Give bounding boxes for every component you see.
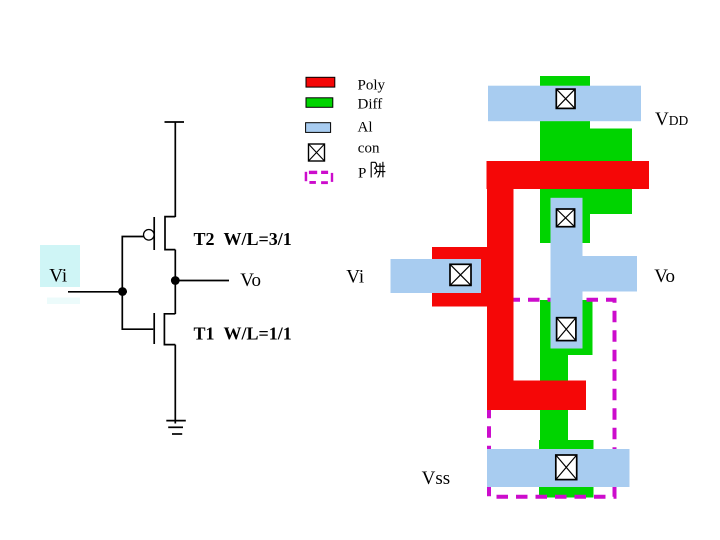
diff lower region narrow strip (540, 355, 568, 449)
contact drain T2 (557, 209, 575, 227)
contact Vss (556, 455, 577, 480)
wire Vo output lead (175, 280, 229, 282)
wire VDD rail vertical (drain of T2) (174, 122, 176, 217)
svg-text:con: con (358, 141, 380, 157)
diff upper region main slab (540, 96, 590, 243)
node Vi input highlight box (40, 245, 80, 287)
svg-text:Vi: Vi (346, 267, 364, 288)
transistor Q T2 PMOS channel (165, 217, 175, 250)
svg-text:T1 W/L=1/1: T1 W/L=1/1 (194, 324, 292, 344)
svg-text:Vi: Vi (49, 266, 67, 287)
wire output node to T1 drain (174, 281, 176, 315)
legend P-well swatch (305, 171, 333, 184)
poly bottom horizontal bar (487, 381, 586, 411)
wire T2 source to output node (174, 250, 176, 281)
diff lower region bottom block (539, 440, 594, 498)
Al Vi input bar (391, 259, 482, 293)
wire T2 gate lead (122, 237, 143, 292)
node Vi junction dot (118, 287, 127, 296)
Al Vss rail bar (487, 449, 630, 487)
transistor T2 bubble (144, 230, 155, 241)
svg-text:Al: Al (358, 119, 373, 135)
svg-text:VDD: VDD (655, 109, 688, 130)
diff upper region stub above VDD rail (540, 76, 590, 96)
diff lower region upper block (540, 300, 593, 355)
transistor T2 gate bar (153, 217, 155, 250)
contact drain T1 (557, 318, 576, 341)
svg-text:P: P (358, 166, 366, 182)
contact VDD (556, 89, 575, 108)
wire VDD rail top bar (165, 121, 185, 123)
diff upper region right extension (590, 129, 632, 215)
contact Vi (450, 264, 471, 285)
Al VDD rail bar (488, 86, 641, 122)
svg-text:Vo: Vo (240, 270, 261, 291)
svg-text:Poly: Poly (358, 78, 386, 94)
legend Poly swatch (306, 77, 335, 87)
Al center vertical strip (551, 198, 583, 349)
svg-text:T2 W/L=3/1: T2 W/L=3/1 (194, 229, 292, 249)
wire Vi input lead (68, 291, 127, 293)
poly gate top horizontal bar (487, 161, 650, 189)
poly vertical strip (487, 161, 514, 410)
poly Vi input stub (432, 247, 490, 307)
transistor T1 gate bar (153, 313, 155, 344)
legend P-well Chinese character jing (371, 162, 385, 178)
legend Al swatch (306, 123, 331, 133)
wire T1 source to ground (174, 345, 176, 424)
ground (166, 421, 186, 434)
svg-text:Diff: Diff (358, 97, 383, 113)
legend Diff swatch (306, 98, 333, 108)
transistor Q T1 NMOS channel (164, 314, 175, 345)
svg-text:Vo: Vo (654, 266, 675, 287)
svg-text:Vss: Vss (422, 468, 451, 489)
P-well dashed boundary (489, 300, 615, 497)
Al Vo output bar (583, 256, 638, 292)
node Vi highlight remnant (47, 298, 80, 305)
wire T1 gate lead (122, 292, 153, 330)
node Vo junction dot (171, 276, 180, 285)
legend con swatch (309, 144, 325, 161)
